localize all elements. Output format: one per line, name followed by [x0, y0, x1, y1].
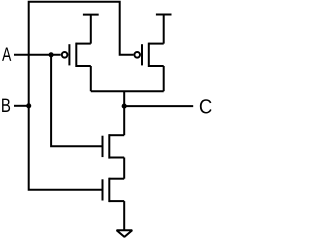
- wire Q3 source to Q4 drain: [123, 158, 125, 179]
- wire rail to Q3 drain: [123, 91, 125, 135]
- transistor Q2 PMOS right: [134, 43, 163, 67]
- node A: [2, 47, 11, 60]
- wire B input: [14, 105, 29, 107]
- wire A riser to Q3 gate: [51, 55, 102, 147]
- VDD supply right: [156, 15, 172, 44]
- wire Q1 drain to rail: [90, 66, 92, 91]
- junction dot B: [26, 103, 31, 108]
- ground: [117, 230, 133, 237]
- transistor Q3 NMOS top: [103, 134, 125, 158]
- junction dot C: [122, 104, 127, 109]
- junction dot A: [49, 52, 54, 57]
- wire A input: [14, 54, 61, 56]
- wire C output: [124, 105, 193, 107]
- wire drain rail: [91, 90, 164, 92]
- node C: [200, 99, 212, 113]
- wire Q2 drain to rail: [163, 66, 165, 91]
- transistor Q1 PMOS left: [62, 43, 91, 67]
- node B: [2, 99, 10, 112]
- wire B net: riser, top rail, right riser to Q2 gate, and branch to Q4 gate: [29, 2, 134, 190]
- wire Q4 source to ground: [123, 201, 125, 230]
- VDD supply left: [83, 15, 99, 44]
- transistor Q4 NMOS bottom: [103, 178, 125, 202]
